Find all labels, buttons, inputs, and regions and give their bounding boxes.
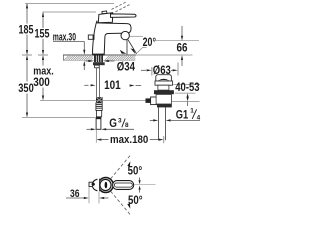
dimension max.300 — [33, 55, 54, 101]
flexible hose — [96, 68, 99, 97]
dimension max.180 — [96, 134, 163, 146]
svg-text:50°: 50° — [128, 193, 143, 207]
dimension 36 — [66, 187, 109, 203]
svg-text:1: 1 — [190, 107, 194, 114]
svg-text:155: 155 — [35, 27, 50, 41]
swivel 50deg lower — [111, 186, 143, 215]
svg-text:300: 300 — [33, 75, 50, 89]
bottom view: faucet from below — [89, 178, 134, 193]
dimension max.30 (counter thickness) — [53, 31, 86, 70]
svg-text:Ø34: Ø34 — [117, 59, 135, 73]
svg-text:Ø63: Ø63 — [153, 63, 171, 77]
extension from hose end down to max180 — [95, 129, 97, 143]
reference line top (185/350 top) — [25, 2, 114, 4]
dimension 40-53 — [172, 80, 200, 106]
faucet base plinth — [93, 54, 104, 56]
svg-text:20°: 20° — [143, 35, 157, 49]
aerator circle — [121, 31, 129, 39]
reference line (155 top) — [43, 11, 97, 13]
handle from below — [113, 181, 134, 190]
nose bulge — [92, 179, 99, 191]
svg-text:max.180: max.180 — [110, 134, 148, 146]
dimension 350 — [18, 55, 95, 118]
20 degree leader line — [130, 35, 143, 37]
pop-up rod knob (left tab) — [88, 35, 94, 39]
svg-text:350: 350 — [18, 81, 34, 95]
pop-up waste drain assembly — [154, 75, 174, 141]
big circle — [98, 178, 113, 193]
dimension diameter 34 — [86, 59, 136, 73]
svg-text:4: 4 — [197, 114, 201, 121]
svg-text:50°: 50° — [128, 163, 143, 177]
svg-text:3: 3 — [118, 118, 122, 125]
hose end fitting — [96, 97, 103, 129]
swivel 50deg upper — [111, 155, 143, 184]
faucet lever (side view) — [111, 14, 137, 18]
mounting shank — [93, 56, 105, 68]
faucet body side view — [93, 11, 131, 55]
dimension 66 — [156, 26, 199, 66]
svg-text:40-53: 40-53 — [175, 80, 199, 94]
pop-up rod — [40, 97, 157, 105]
countertop — [63, 55, 193, 61]
dimension 185 — [19, 3, 34, 55]
dimension G3/8 — [87, 116, 135, 130]
dimension 101 — [84, 78, 141, 92]
svg-text:101: 101 — [104, 78, 121, 92]
svg-text:8: 8 — [125, 122, 129, 129]
dimension diameter 63 — [141, 63, 178, 78]
dimension 155 — [35, 12, 50, 55]
svg-text:185: 185 — [19, 22, 34, 36]
raised lever dashed — [112, 2, 130, 12]
nose tip piece — [89, 182, 93, 186]
svg-text:G: G — [109, 116, 117, 130]
swivel centerline — [134, 184, 155, 186]
inner circle — [100, 179, 111, 190]
leader stub from 20deg ray — [137, 48, 146, 53]
svg-text:36: 36 — [70, 188, 80, 200]
svg-text:66: 66 — [177, 41, 188, 55]
svg-text:G1: G1 — [176, 107, 189, 121]
label G1 1/4 — [150, 107, 201, 121]
20 degree spray rays — [120, 40, 137, 55]
lever pin — [105, 182, 108, 189]
